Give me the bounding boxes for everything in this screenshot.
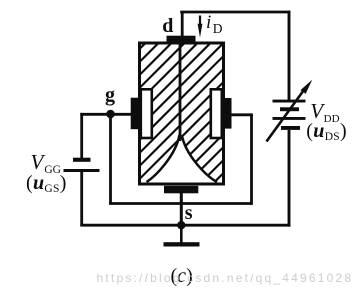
bottom source rail [80, 224, 290, 227]
wire g loop right up [250, 115, 253, 205]
battery VDD plate 1 long [273, 100, 306, 103]
wire source down [180, 193, 183, 227]
battery VDD plate 4 short thick [281, 126, 300, 130]
JFET body hatched interior [0, 30, 363, 200]
wire right down to battery [288, 11, 291, 100]
label (uGS) [26, 173, 67, 196]
wire top horizontal [180, 11, 290, 14]
label VDD [310, 101, 339, 125]
label s (source) [185, 203, 193, 223]
ground bar [164, 242, 200, 246]
label VGG [31, 152, 61, 176]
caption (c) [171, 266, 193, 286]
label d (drain) [162, 16, 173, 36]
node s junction dot [177, 221, 185, 229]
wire g node to left gate [108, 113, 132, 116]
channel center line [179, 43, 182, 141]
wire g loop down [109, 114, 112, 204]
label g (gate) [105, 85, 115, 105]
variable source arrow through VDD [267, 89, 306, 142]
label iD [206, 13, 223, 35]
drain contact bar [167, 36, 196, 42]
wire to right gate [231, 113, 253, 116]
wire g loop bottom [109, 202, 251, 205]
JFET body border [140, 43, 224, 184]
left depletion boundary curve [147, 135, 180, 182]
watermark [97, 272, 354, 284]
battery VDD plate 3 long [273, 117, 306, 120]
right gate contact bar [221, 98, 232, 129]
wire drain up [181, 12, 184, 37]
right gate p-region (white notch) [211, 89, 222, 138]
battery VGG negative plate (short thick) [73, 158, 91, 162]
left gate p-region (white notch) [141, 89, 152, 138]
node g junction dot [106, 110, 115, 119]
wire g node left to VGG [80, 113, 110, 116]
wire VGG down [80, 113, 83, 159]
left gate contact bar [131, 98, 141, 130]
right depletion boundary curve [182, 135, 217, 182]
wire VGG to bottom rail [80, 172, 83, 225]
wire VDD below battery to rail [288, 130, 291, 227]
source contact bar [164, 186, 198, 194]
battery VDD plate 2 short thick [280, 107, 299, 111]
wire to ground [180, 225, 183, 243]
label (uDS) [306, 121, 347, 144]
iD current arrow [199, 16, 201, 29]
channel depletion white funnel region [147, 128, 218, 184]
battery VGG positive plate (long thin) [64, 169, 100, 172]
